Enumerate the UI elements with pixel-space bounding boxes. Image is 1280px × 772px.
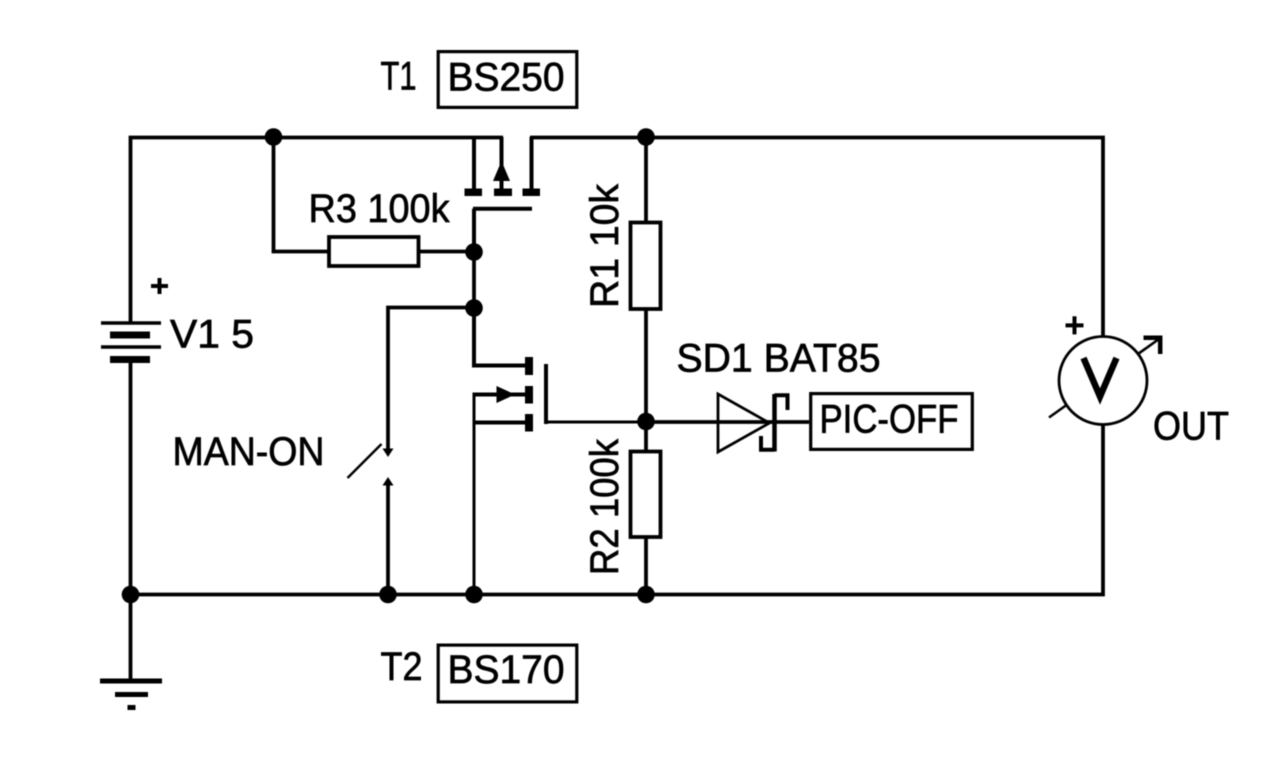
T2 gate wire right: [546, 421, 646, 424]
T1 channel tick drain: [523, 188, 541, 196]
battery V1: [101, 323, 161, 595]
node T1gate/T2drain/switch junction: [465, 299, 483, 317]
diode SD1 schottky top hook: [775, 395, 788, 410]
svg-text:MAN-ON: MAN-ON: [173, 430, 325, 474]
svg-text:V1 5: V1 5: [170, 313, 254, 357]
wire R1 bottom lead: [644, 309, 648, 421]
voltmeter plus sign: [1066, 316, 1084, 334]
diode SD1 schottky bottom hook: [761, 436, 775, 450]
ground: [100, 681, 162, 708]
T2 bulk stub: [474, 393, 525, 397]
voltmeter circle: [1059, 337, 1147, 425]
T1 gate plate: [473, 207, 532, 211]
svg-text:R2 100k: R2 100k: [583, 438, 627, 575]
T2 drain wire from junction: [474, 308, 525, 366]
switch MAN-ON blade: [348, 444, 382, 478]
svg-text:BS170: BS170: [448, 648, 565, 692]
svg-text:PIC-OFF: PIC-OFF: [820, 398, 959, 442]
wire divider to diode: [646, 420, 776, 424]
node bottom rail R2 junction: [637, 586, 655, 604]
resistor R2 body: [631, 452, 661, 538]
T2 channel tick drain: [525, 357, 533, 375]
T1 channel tick source: [465, 188, 483, 196]
transistor T1 BS250: [465, 137, 541, 252]
resistor R1 body: [631, 223, 661, 310]
node bottom rail switch junction: [379, 586, 397, 604]
svg-text:T2: T2: [381, 645, 423, 689]
wire bottom rail: [131, 425, 1104, 680]
svg-text:R3 100k: R3 100k: [309, 187, 451, 231]
node gate/R3 junction: [465, 243, 483, 261]
transistor T2 BS170: [474, 308, 646, 595]
T1 source stub: [472, 138, 476, 189]
voltmeter V glyph: [1084, 358, 1117, 397]
T2 source/bulk wire down: [473, 393, 476, 595]
wire junction left to switch: [388, 308, 474, 450]
voltmeter arrow head: [1144, 335, 1163, 340]
T2 gate plate: [544, 364, 548, 424]
T1 channel tick bulk: [494, 188, 512, 196]
battery plus sign: [151, 278, 168, 294]
wire R2 top lead: [644, 422, 648, 452]
wire from top rail down to R3: [274, 139, 330, 252]
svg-text:R1 10k: R1 10k: [583, 183, 627, 308]
svg-text:SD1 BAT85: SD1 BAT85: [677, 337, 881, 381]
T1 drain stub: [530, 137, 534, 189]
T2 channel tick source: [525, 414, 533, 432]
T2 bulk arrow: [497, 386, 516, 403]
diode SD1 schottky cathode bar: [772, 394, 777, 452]
wire gate junction down: [472, 252, 476, 308]
wire top rail left segment: [131, 138, 504, 323]
box PIC-OFF: [811, 394, 973, 450]
wire switch lower to bottom rail: [386, 484, 390, 595]
switch MAN-ON upper contact arrow: [383, 449, 394, 458]
T2 source stub: [474, 421, 525, 425]
wire R1 top lead: [644, 138, 648, 223]
svg-text:T1: T1: [381, 55, 417, 99]
node R1 top junction: [637, 128, 655, 146]
diode SD1 triangle: [718, 394, 770, 452]
voltmeter OUT arrow line: [1049, 339, 1159, 418]
wire diode to PIC-OFF: [776, 420, 809, 424]
node bottom rail battery junction: [122, 586, 140, 604]
T1 bulk stub: [500, 137, 504, 189]
node bottom rail T2 junction: [465, 586, 483, 604]
wire R2 bottom lead: [644, 537, 648, 595]
box BS170: [438, 645, 577, 702]
node divider junction: [637, 413, 655, 431]
svg-text:BS250: BS250: [448, 56, 565, 100]
switch MAN-ON lower contact arrow: [383, 477, 394, 486]
box BS250: [438, 52, 577, 108]
node top-left junction: [265, 128, 283, 146]
resistor R3 body: [329, 237, 419, 266]
T2 channel tick bulk: [525, 386, 533, 404]
svg-text:OUT: OUT: [1153, 405, 1229, 449]
T1 gate wire down: [472, 209, 476, 252]
T1 bulk arrow: [493, 161, 510, 181]
wire R3 right lead: [419, 250, 475, 254]
wire top rail right segment: [530, 138, 1103, 337]
